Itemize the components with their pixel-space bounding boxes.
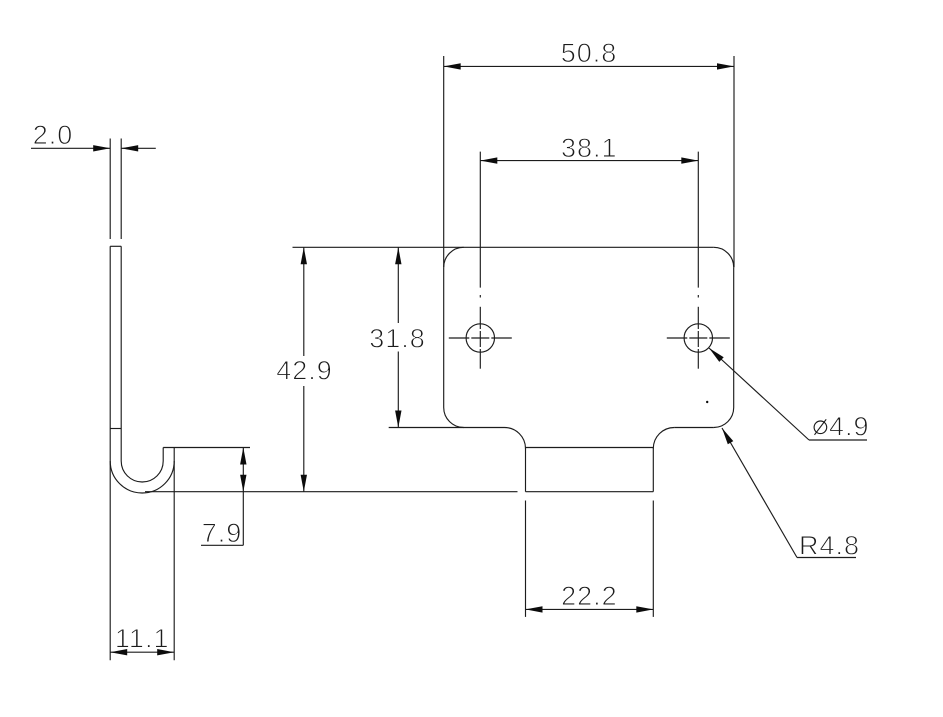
side view strip left edge [109,246,111,461]
dimension 42.9 up arrow [301,247,307,264]
plate left edge [443,267,445,407]
dimension 50.8 left arrow [444,63,461,69]
dimension 11.1 left arrow [110,649,127,655]
dimension 22.2 text [561,581,618,611]
svg-text:11.1: 11.1 [115,624,170,654]
plate tab bottom edge [526,491,654,493]
dimension 2.0 left extension line [109,139,111,240]
side view strip right edge [120,246,122,461]
dimension 7.9 leader vertical line [242,448,244,546]
dimension 2.0 right arrow [121,145,138,151]
right hole [684,324,712,352]
side view hook right inner edge [162,448,164,462]
dimension 50.8 right arrow [717,63,734,69]
left hole horizontal center line [449,337,512,339]
dimension 42.9 down arrow [301,475,307,492]
svg-text:31.8: 31.8 [369,324,426,354]
dimension 50.8 text [561,38,618,68]
side view hook outer arc [110,461,174,493]
dimension 50.8 left extension line [443,56,445,267]
side view hook top cap plus 7.9 extension line [163,447,250,449]
dimension 11.1 right arrow [157,649,174,655]
plate bottom edge right [674,427,713,429]
dimension 31.8 text [369,324,426,354]
dimension 7.9 text [202,518,243,548]
plate tab left edge [525,448,527,492]
svg-text:50.8: 50.8 [561,38,618,68]
dimension 31.8 down arrow [395,411,401,428]
radius 4.8 leader underline [797,557,856,559]
radius 4.8 text [799,531,860,561]
radius 4.8 arrow [722,428,733,444]
dimension 2.0 right extension line [120,139,122,240]
dimension 2.0 right line [121,147,156,149]
dimension 31.8 line lower segment [397,352,399,428]
svg-text:42.9: 42.9 [276,356,333,386]
dimension 7.9 down arrow [240,475,246,492]
dimension 22.2 right extension line [652,501,654,617]
dimension 42.9 text [276,356,333,386]
diameter 4.9 text [829,412,870,442]
dimension 22.2 line [526,608,654,610]
svg-text:38.1: 38.1 [561,133,618,163]
svg-text:2.0: 2.0 [33,120,74,150]
dimension 38.1 text [561,133,618,163]
right hole horizontal center line [667,337,730,339]
dimension 50.8 right extension line [733,56,735,267]
side view bend tangent tick [110,428,121,430]
dimension 11.1 left extension line [109,461,111,660]
plate bottom-left corner arc [444,408,464,428]
left hole [466,324,494,352]
svg-text:7.9: 7.9 [202,518,243,548]
dimension 11.1 line [110,651,174,653]
dimension 22.2 left extension line [525,501,527,617]
dimension 22.2 left arrow [526,606,543,612]
bottom extension line shared by 7.9 and 42.9 [145,491,518,493]
dimension 2.0 text [33,120,74,150]
dimension 38.1 right arrow [681,157,698,163]
dimension 31.8 line upper segment [397,247,399,323]
side view strip top cap [110,245,121,247]
dimension 11.1 text [115,624,170,654]
diameter 4.9 symbol [814,419,827,435]
diameter 4.9 leader underline [809,439,867,441]
left hole vertical center line [479,295,481,369]
svg-text:R4.8: R4.8 [799,531,860,561]
side view hook right outer edge [173,448,175,462]
dimension 7.9 underline [201,544,243,546]
plate bottom-right corner arc [714,408,734,428]
top edge line shared by 42.9 extension and plate top edge [293,246,714,248]
dimension 38.1 line [480,160,698,162]
dimension 42.9 line upper segment [303,247,305,356]
dimension 38.1 left extension line [479,152,481,288]
diameter 4.9 leader line [709,348,809,440]
side view hook inner arc [121,461,163,482]
dimension 38.1 right extension line [697,152,699,288]
dimension 31.8 up arrow [395,247,401,264]
svg-text:4.9: 4.9 [829,412,870,442]
plate top-right corner arc [714,247,734,267]
right hole vertical center line [697,295,699,369]
plate tab bend line [526,447,654,449]
dimension 22.2 right arrow [636,606,653,612]
fillet center dot [706,401,708,403]
radius 4.8 leader line [722,428,797,558]
dimension 42.9 line lower segment [303,386,305,492]
plate left concave fillet [505,428,526,449]
dimension 38.1 left arrow [480,157,497,163]
diameter 4.9 arrow [709,348,724,362]
plate top-left corner arc [444,247,464,267]
dimension 2.0 left line [31,147,110,149]
dimension 7.9 up arrow [240,448,246,465]
dimension 50.8 line [444,65,734,67]
dimension 31.8 bottom extension plus plate bottom edge left [389,427,505,429]
plate right concave fillet [653,428,674,449]
plate tab right edge [652,448,654,492]
dimension 2.0 left arrow [93,145,110,151]
svg-text:22.2: 22.2 [561,581,618,611]
dimension 11.1 right extension line [173,461,175,660]
plate right edge [733,267,735,407]
